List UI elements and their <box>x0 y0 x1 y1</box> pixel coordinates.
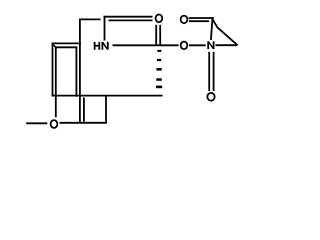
wire ring A left outer bond descending to O5 <box>52 43 54 97</box>
wire methyl bond left of O5 <box>26 122 47 124</box>
wire amide carbonyl C=O right line <box>159 25 161 45</box>
wire bond N2=O6 left line <box>208 52 210 91</box>
wire hashed stereo bond dash 2 <box>157 59 161 61</box>
wire bond C=O top double inner line <box>109 19 153 21</box>
wire ring A top inner bond <box>55 46 77 48</box>
wire long horizontal bond through ring bottoms <box>52 95 163 97</box>
wire hashed stereo bond dash 1 <box>157 50 161 52</box>
wire ring B right bond <box>105 96 107 123</box>
wire bond ester O2 to N2 <box>189 44 206 46</box>
atom O5 methoxy oxygen bottom left <box>51 120 58 128</box>
wire bond O4=C11 outer line <box>189 17 214 19</box>
wire ring A left inner bond <box>55 47 57 118</box>
wire hashed stereo bond dash 4 <box>156 78 162 81</box>
wire ring A right inner bond <box>75 47 77 96</box>
wire bond N2-C12 horizontal <box>216 44 238 46</box>
wire bond N2=O6 right line <box>213 52 215 91</box>
wire bond O4=C11 inner line <box>189 20 209 22</box>
atom O6 oxygen bottom right <box>207 93 214 101</box>
atom O1 carbonyl oxygen top middle <box>156 14 163 22</box>
wire bond C11-N2 vertical <box>211 18 213 40</box>
atom N1 letter N of HN <box>102 42 109 50</box>
wire ring A top outer bond <box>52 42 81 44</box>
wire bond HN to ester carbon horizontal <box>113 44 179 46</box>
wire ring B left inner bond <box>83 98 85 122</box>
wire ring A corner mitre tick <box>53 44 56 47</box>
wire bond chain horizontal top <box>79 18 101 20</box>
wire bond C11-C13 diagonal upper segment <box>213 19 238 45</box>
atom O3 ester oxygen middle <box>181 42 188 50</box>
wire hashed stereo bond dash 3 <box>156 68 161 71</box>
atom N2 ring nitrogen letter <box>207 41 214 49</box>
wire bond chain vertical + ring A right outer edge <box>79 19 81 123</box>
wire ring B bottom bond from O5 <box>60 122 107 124</box>
wire hashed stereo bond dash 5 <box>156 86 162 89</box>
atom O4 carbonyl oxygen top right <box>181 16 188 24</box>
wire amide carbonyl C=O left line <box>155 25 157 45</box>
wire bond C=O top double outer line <box>104 16 153 18</box>
atom N1 letter H of HN <box>94 42 101 50</box>
wire bond amide C to N vertical <box>104 16 106 41</box>
